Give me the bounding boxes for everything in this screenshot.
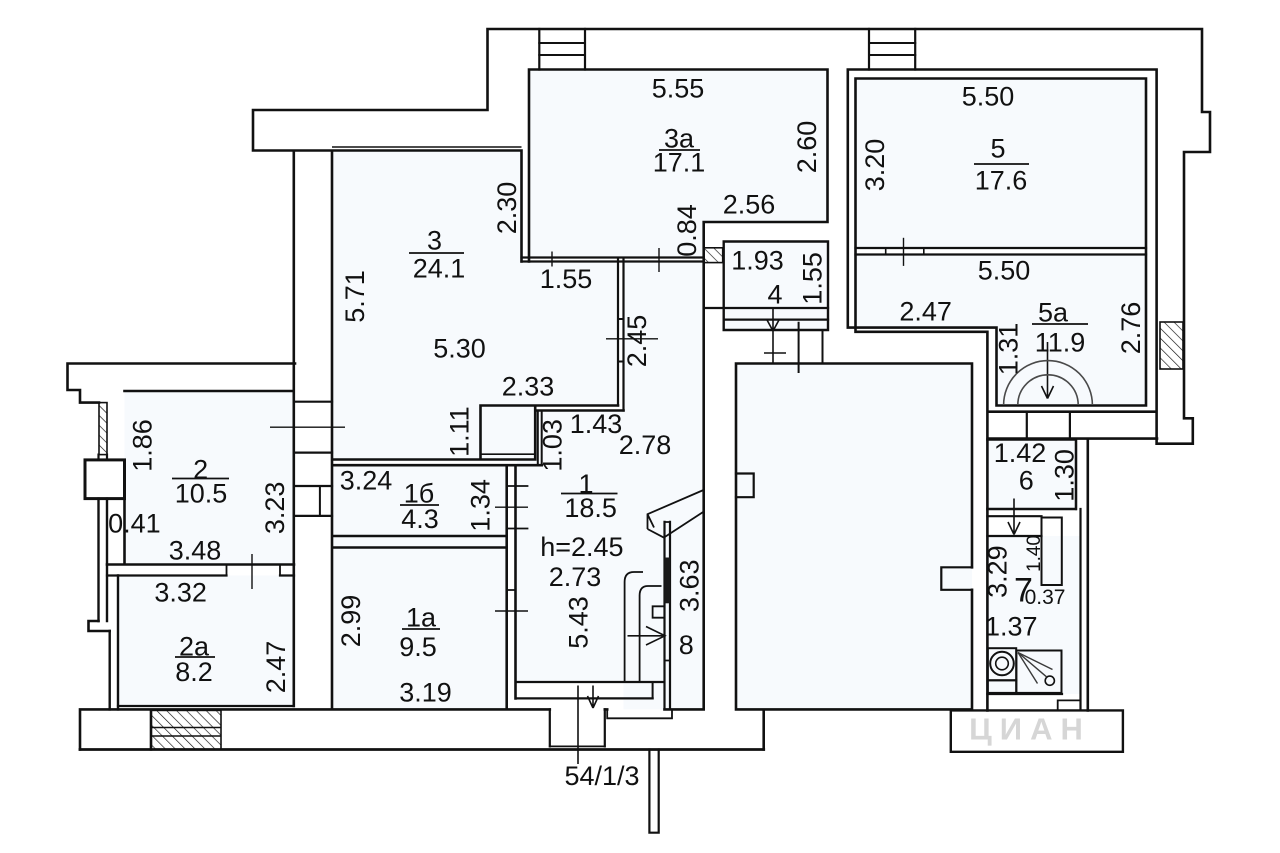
svg-text:3.29: 3.29 — [983, 545, 1013, 598]
svg-text:1.55: 1.55 — [797, 252, 827, 305]
svg-text:5.50: 5.50 — [978, 256, 1031, 286]
svg-text:2.45: 2.45 — [622, 315, 652, 368]
svg-text:1.31: 1.31 — [994, 323, 1024, 376]
svg-text:2.47: 2.47 — [261, 641, 291, 694]
svg-text:18.5: 18.5 — [564, 493, 617, 523]
svg-text:1.55: 1.55 — [540, 264, 593, 294]
svg-text:3: 3 — [427, 226, 442, 256]
svg-text:ЦИАН: ЦИАН — [969, 712, 1091, 747]
svg-text:3.63: 3.63 — [674, 559, 704, 612]
svg-text:1.40: 1.40 — [1024, 535, 1045, 572]
svg-text:2.76: 2.76 — [1116, 302, 1146, 355]
svg-text:17.1: 17.1 — [653, 148, 706, 178]
svg-text:3.20: 3.20 — [860, 139, 890, 192]
svg-text:2.60: 2.60 — [792, 121, 822, 174]
svg-text:4: 4 — [767, 280, 782, 310]
svg-text:1.43: 1.43 — [570, 409, 623, 439]
svg-text:7: 7 — [1014, 572, 1033, 610]
svg-text:2.30: 2.30 — [492, 182, 522, 235]
svg-text:1.30: 1.30 — [1049, 449, 1079, 502]
svg-text:11.9: 11.9 — [1035, 328, 1086, 358]
svg-text:2.56: 2.56 — [723, 190, 776, 220]
svg-text:1.37: 1.37 — [985, 612, 1038, 642]
svg-text:0.84: 0.84 — [672, 204, 702, 257]
svg-text:6: 6 — [1019, 466, 1034, 496]
svg-text:0.41: 0.41 — [108, 509, 161, 539]
svg-text:3.48: 3.48 — [169, 535, 222, 565]
svg-text:4.3: 4.3 — [401, 504, 439, 534]
svg-text:2.99: 2.99 — [336, 595, 366, 648]
svg-text:1.86: 1.86 — [128, 419, 158, 472]
svg-text:2.78: 2.78 — [619, 430, 672, 460]
svg-text:5.43: 5.43 — [564, 596, 594, 649]
svg-text:3.24: 3.24 — [340, 466, 393, 496]
svg-text:8.2: 8.2 — [175, 657, 213, 687]
svg-text:5a: 5a — [1038, 298, 1069, 328]
svg-text:5: 5 — [990, 134, 1005, 164]
svg-text:5.71: 5.71 — [340, 270, 370, 323]
svg-text:1.42: 1.42 — [994, 438, 1047, 468]
svg-text:h=2.45: h=2.45 — [540, 532, 623, 562]
svg-text:2.33: 2.33 — [502, 372, 555, 402]
svg-text:5.50: 5.50 — [962, 82, 1015, 112]
svg-text:1.34: 1.34 — [466, 479, 496, 532]
svg-text:5.55: 5.55 — [652, 74, 705, 104]
svg-text:3.19: 3.19 — [399, 678, 452, 708]
svg-text:3.32: 3.32 — [154, 578, 207, 608]
svg-text:8: 8 — [679, 630, 694, 660]
svg-text:1a: 1a — [406, 603, 437, 633]
svg-text:10.5: 10.5 — [175, 479, 228, 509]
svg-text:2.47: 2.47 — [899, 297, 952, 327]
svg-text:54/1/3: 54/1/3 — [564, 761, 639, 791]
svg-text:17.6: 17.6 — [975, 166, 1028, 196]
svg-text:1.93: 1.93 — [731, 246, 784, 276]
svg-text:5.30: 5.30 — [433, 334, 486, 364]
svg-text:9.5: 9.5 — [399, 632, 437, 662]
svg-text:24.1: 24.1 — [413, 254, 466, 284]
svg-text:3.23: 3.23 — [260, 482, 290, 535]
svg-text:2.73: 2.73 — [549, 562, 602, 592]
svg-text:1.11: 1.11 — [444, 406, 474, 457]
svg-text:1.03: 1.03 — [538, 419, 568, 472]
